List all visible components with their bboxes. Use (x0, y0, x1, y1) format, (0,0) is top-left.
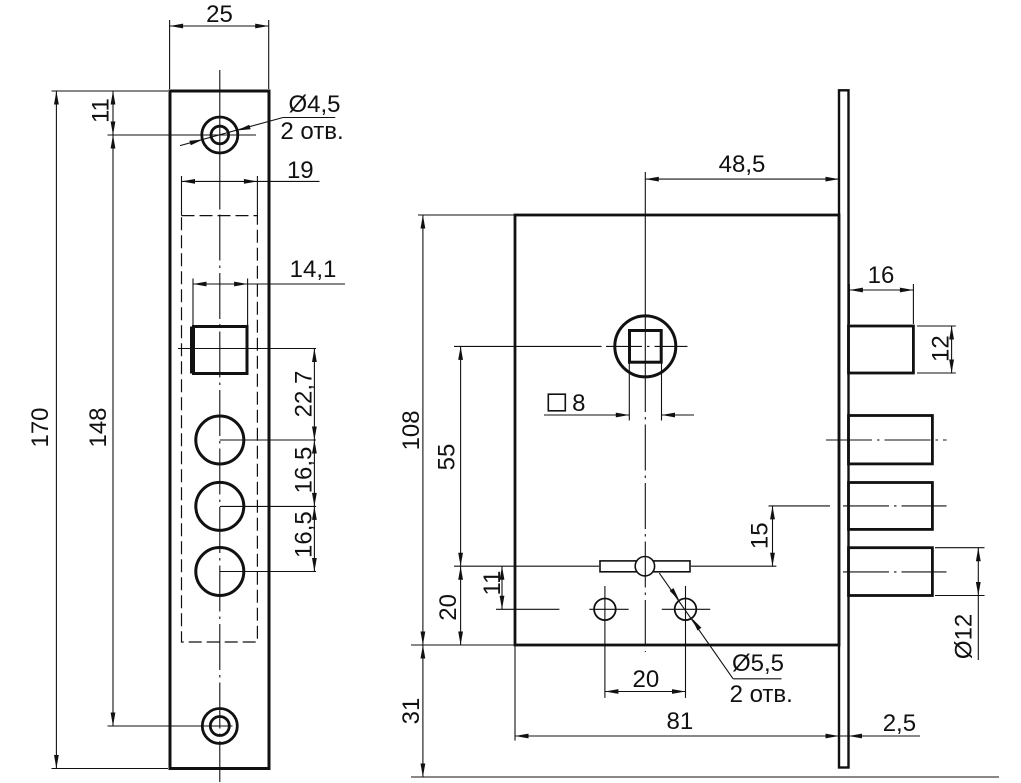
svg-text:20: 20 (435, 594, 462, 621)
svg-text:Ø4,5: Ø4,5 (288, 91, 340, 118)
svg-text:16,5: 16,5 (290, 447, 317, 494)
svg-text:12: 12 (928, 335, 955, 362)
svg-text:14,1: 14,1 (290, 256, 337, 283)
svg-text:22,7: 22,7 (290, 371, 317, 418)
svg-text:16,5: 16,5 (290, 511, 317, 558)
svg-text:19: 19 (287, 157, 314, 184)
svg-text:48,5: 48,5 (719, 151, 766, 178)
svg-text:11: 11 (479, 571, 506, 596)
svg-text:108: 108 (398, 410, 425, 450)
svg-text:15: 15 (747, 522, 774, 549)
svg-text:81: 81 (667, 708, 694, 735)
svg-text:11: 11 (88, 98, 115, 123)
svg-text:2 отв.: 2 отв. (730, 681, 793, 708)
svg-text:31: 31 (398, 698, 425, 725)
svg-text:8: 8 (572, 390, 585, 417)
svg-text:Ø12: Ø12 (950, 614, 977, 659)
svg-text:170: 170 (27, 407, 54, 447)
svg-text:55: 55 (434, 444, 461, 471)
svg-text:25: 25 (206, 1, 233, 28)
svg-text:16: 16 (868, 262, 895, 289)
svg-text:148: 148 (85, 407, 112, 447)
svg-text:2,5: 2,5 (883, 710, 916, 737)
svg-text:Ø5,5: Ø5,5 (732, 650, 784, 677)
svg-text:20: 20 (633, 666, 660, 693)
svg-text:2 отв.: 2 отв. (280, 118, 343, 145)
